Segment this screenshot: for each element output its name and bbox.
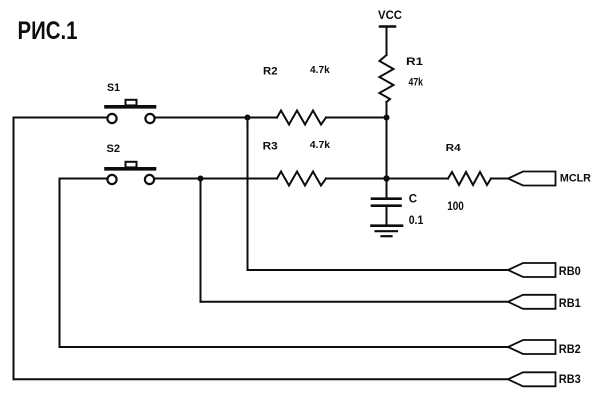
connector RB0: [508, 263, 556, 277]
svg-text:R2: R2: [263, 66, 278, 78]
resistor R4: [448, 172, 491, 185]
svg-text:4.7k: 4.7k: [310, 64, 330, 76]
svg-text:VCC: VCC: [378, 8, 402, 22]
wire RB3 row horizontal: [14, 378, 509, 380]
wire RB2 row horizontal: [60, 346, 509, 348]
switch S2: [106, 162, 155, 184]
wire node B vertical (to RB0 row): [247, 118, 249, 271]
connector RB1: [508, 295, 556, 309]
switch S1: [106, 100, 155, 123]
wire R2 to node A: [326, 117, 387, 119]
junction node B: [245, 115, 251, 121]
wire left bus vertical (S1 node to RB3 row): [13, 118, 15, 380]
svg-text:100: 100: [447, 199, 464, 213]
wire VCC to R1 top: [386, 27, 388, 56]
svg-text:S1: S1: [107, 82, 120, 94]
wire R3 to node C: [326, 178, 387, 180]
junction node C: [383, 175, 389, 181]
junction node A: [384, 115, 390, 121]
wire S2-left vertical (to RB2 row): [59, 179, 61, 348]
VCC terminal tick: [380, 25, 395, 28]
svg-text:4.7k: 4.7k: [310, 139, 330, 151]
wire node A down to node C: [386, 118, 388, 179]
wire row2 left corner to S2: [60, 178, 108, 180]
resistor R3: [277, 172, 326, 186]
wire S2 right terminal to R3: [155, 178, 278, 180]
wire RB0 row horizontal: [248, 269, 509, 271]
wire node C down to capacitor: [386, 179, 388, 199]
resistor R2: [277, 111, 326, 125]
svg-text:MCLR: MCLR: [560, 172, 591, 184]
svg-text:S2: S2: [107, 143, 121, 155]
wire R1 bottom to node A: [386, 102, 388, 118]
wire capacitor to ground: [386, 206, 388, 225]
ground: [372, 226, 403, 237]
svg-text:RB0: RB0: [559, 264, 581, 278]
svg-text:47k: 47k: [409, 77, 424, 89]
wire node C to R4: [387, 178, 449, 180]
wire R4 to MCLR connector: [491, 178, 508, 180]
wire node B to R2: [248, 117, 278, 119]
svg-text:RB3: RB3: [559, 372, 581, 386]
resistor R1: [380, 55, 394, 102]
wire row1 left segment from left bus to S1: [14, 117, 108, 119]
connector RB2: [508, 340, 556, 354]
svg-text:RB1: RB1: [559, 296, 581, 310]
svg-text:C: C: [409, 194, 417, 206]
svg-text:РИС.1: РИС.1: [18, 17, 78, 45]
connector MCLR: [508, 172, 556, 186]
junction node D (RB1 tap): [198, 176, 204, 182]
svg-text:R3: R3: [263, 141, 278, 153]
connector RB3: [508, 372, 556, 386]
svg-text:R1: R1: [406, 56, 423, 68]
wire S1 right terminal to node B: [155, 117, 248, 119]
svg-text:RB2: RB2: [559, 342, 581, 356]
svg-text:0.1: 0.1: [409, 213, 424, 227]
wire node D vertical (to RB1 row): [200, 179, 202, 302]
svg-text:R4: R4: [446, 142, 461, 154]
wire RB1 row horizontal: [201, 301, 509, 303]
capacitor C: [372, 199, 401, 206]
